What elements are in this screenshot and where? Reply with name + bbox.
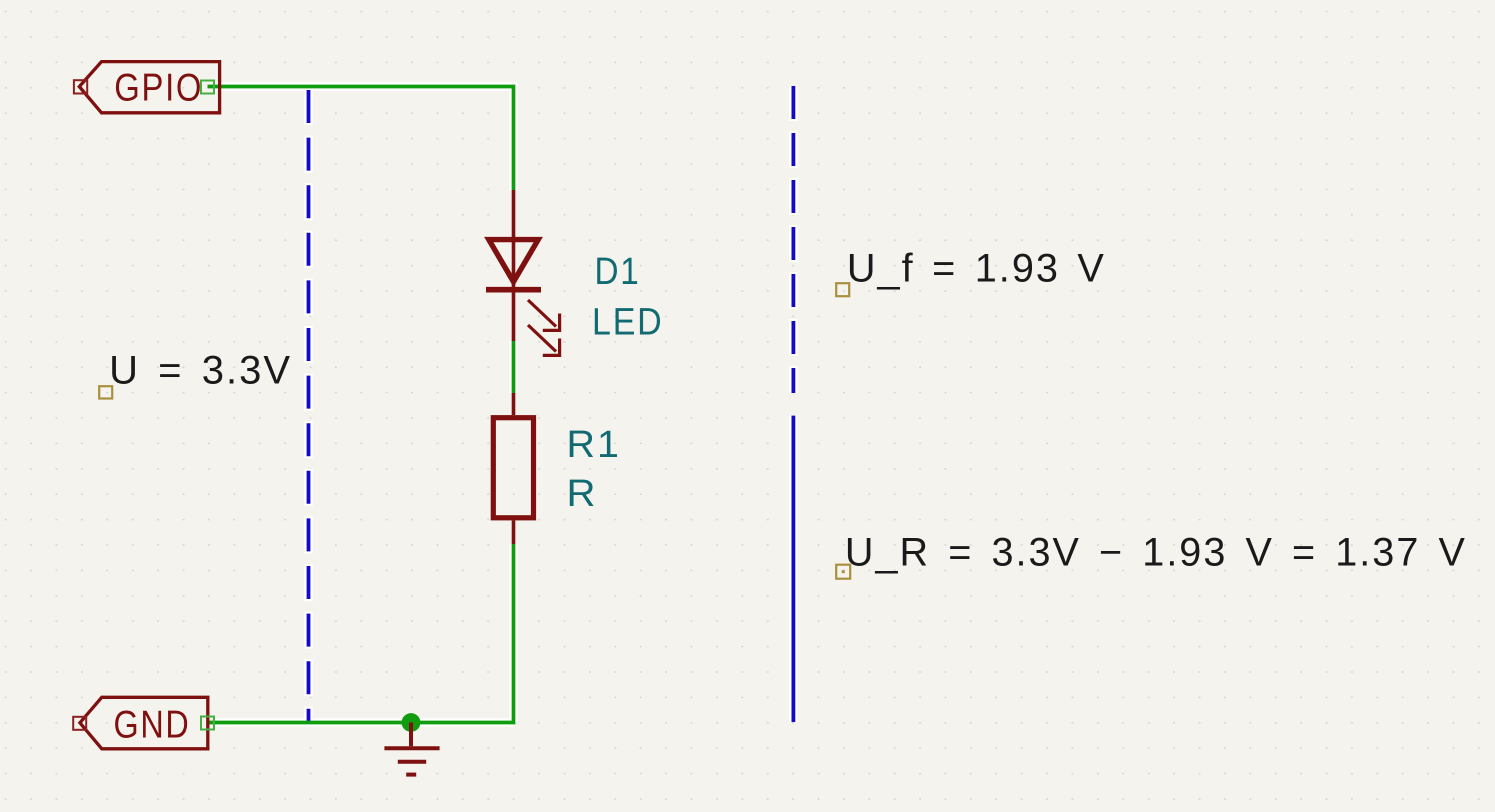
emission arrow 1 — [528, 300, 560, 330]
svg-text:R1: R1 — [567, 424, 622, 466]
text anchor U = 3.3V — [99, 386, 112, 398]
ground symbol — [384, 723, 439, 775]
dashed blue measurement line (right top, U_f) — [792, 86, 796, 393]
pin 1 (anode) — [512, 190, 516, 341]
text anchor U_f — [836, 283, 849, 296]
svg-text:U_R = 3.3V − 1.93 V = 1.37 V: U_R = 3.3V − 1.93 V = 1.37 V — [845, 530, 1467, 574]
anode triangle — [489, 240, 538, 282]
pin 1 — [512, 393, 516, 415]
svg-text:U_f = 1.93 V: U_f = 1.93 V — [847, 247, 1106, 291]
emission arrow 2 — [528, 325, 560, 355]
wire end square GND — [201, 717, 214, 730]
resistor R1 symbol — [493, 393, 533, 544]
LED D1 symbol — [486, 190, 560, 355]
wire R1 to GND — [208, 544, 514, 723]
unconnected pin marker GPIO — [74, 80, 87, 93]
svg-text:GPIO: GPIO — [114, 67, 203, 110]
wire LED to R1 — [512, 341, 516, 393]
text anchor U_R — [836, 565, 850, 579]
svg-text:D1: D1 — [595, 251, 641, 293]
global label GND — [80, 697, 208, 749]
svg-text:U = 3.3V: U = 3.3V — [109, 349, 292, 393]
unconnected pin marker GND — [73, 717, 86, 730]
svg-text:LED: LED — [592, 302, 664, 344]
wire end square GPIO — [201, 81, 214, 94]
body — [493, 418, 533, 518]
solid blue measurement line (right bottom, U_R) — [792, 416, 796, 722]
svg-text:R: R — [567, 473, 596, 515]
pin 2 — [512, 520, 516, 544]
junction — [402, 713, 421, 732]
wire GPIO to LED — [208, 87, 514, 191]
wire halo — [213, 86, 793, 723]
global label GPIO — [79, 62, 219, 113]
svg-text:GND: GND — [114, 703, 191, 746]
cathode bar — [486, 287, 541, 293]
dashed blue measurement line (left, U = 3.3V) — [307, 88, 311, 722]
